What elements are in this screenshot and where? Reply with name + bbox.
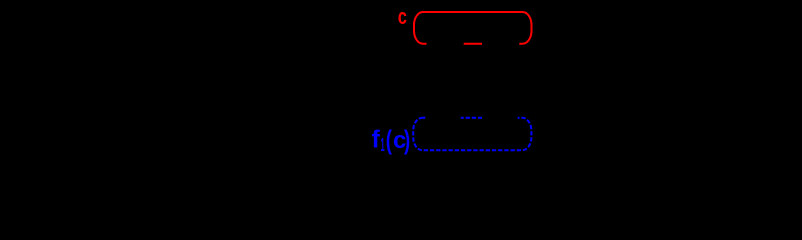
occluder right of gap on red bottom edge [482, 41, 519, 48]
blue dashed row outline (stadium around row f1(c)) [413, 118, 531, 150]
occluder right of gap on blue top edge [482, 115, 518, 121]
svg-text:(: ( [386, 125, 392, 155]
occluder left of gap on red bottom edge [427, 41, 464, 48]
svg-text:): ) [404, 125, 410, 155]
svg-text:1: 1 [381, 135, 385, 155]
red row outline (stadium around row c) [414, 12, 532, 44]
svg-text:c: c [398, 4, 407, 29]
svg-text:f: f [372, 125, 381, 153]
occluder left of gap on blue top edge [425, 115, 461, 121]
